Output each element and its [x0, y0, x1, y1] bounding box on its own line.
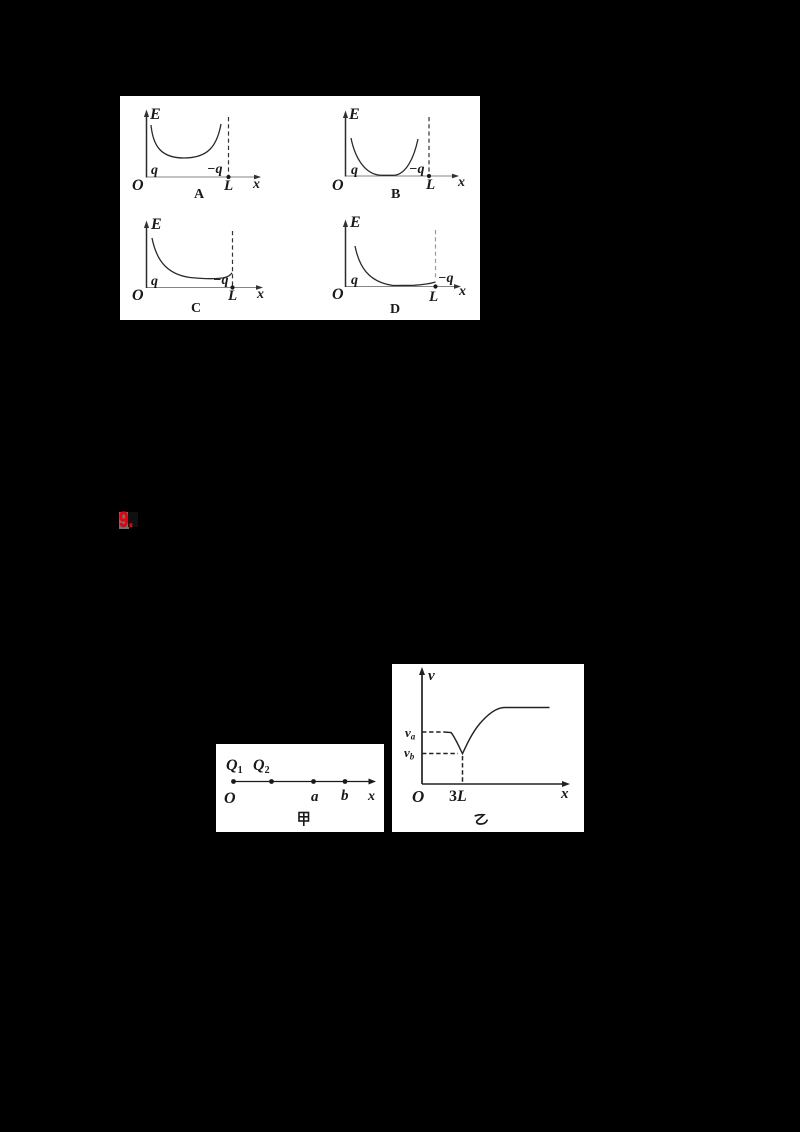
svg-text:L: L: [425, 177, 435, 193]
svg-text:x: x: [367, 789, 375, 804]
svg-text:−q: −q: [207, 162, 222, 177]
svg-text:q: q: [351, 273, 358, 288]
svg-text:a: a: [311, 789, 319, 805]
svg-text:x: x: [458, 284, 466, 299]
svg-text:x: x: [252, 177, 260, 192]
svg-text:−q: −q: [213, 273, 228, 288]
svg-text:A: A: [194, 187, 205, 202]
svg-text:O: O: [224, 790, 236, 807]
svg-text:va: va: [405, 725, 416, 742]
svg-text:−q: −q: [409, 162, 424, 177]
svg-text:x: x: [256, 287, 264, 302]
svg-text:D: D: [390, 302, 400, 317]
svg-text:O: O: [132, 287, 144, 304]
svg-text:q: q: [151, 163, 158, 178]
svg-text:Q1: Q1: [226, 757, 243, 776]
svg-text:3L: 3L: [449, 788, 467, 805]
svg-text:x: x: [560, 786, 569, 802]
svg-text:C: C: [191, 301, 201, 316]
svg-text:E: E: [349, 214, 361, 231]
svg-text:q: q: [351, 163, 358, 178]
svg-text:vb: vb: [404, 745, 415, 762]
svg-text:E: E: [348, 106, 360, 123]
svg-text:L: L: [223, 178, 233, 194]
svg-text:q: q: [151, 274, 158, 289]
svg-text:x: x: [457, 175, 465, 190]
svg-text:E: E: [150, 216, 162, 233]
svg-text:O: O: [332, 286, 344, 303]
svg-text:O: O: [332, 177, 344, 194]
svg-text:O: O: [132, 177, 144, 194]
svg-text:E: E: [149, 106, 161, 123]
svg-text:Q2: Q2: [253, 757, 270, 776]
svg-text:L: L: [428, 289, 438, 305]
svg-text:−q: −q: [438, 271, 453, 286]
svg-text:O: O: [412, 787, 424, 806]
svg-text:b: b: [341, 788, 349, 804]
svg-text:v: v: [428, 668, 435, 684]
svg-text:B: B: [391, 187, 400, 202]
svg-text:L: L: [227, 288, 237, 304]
